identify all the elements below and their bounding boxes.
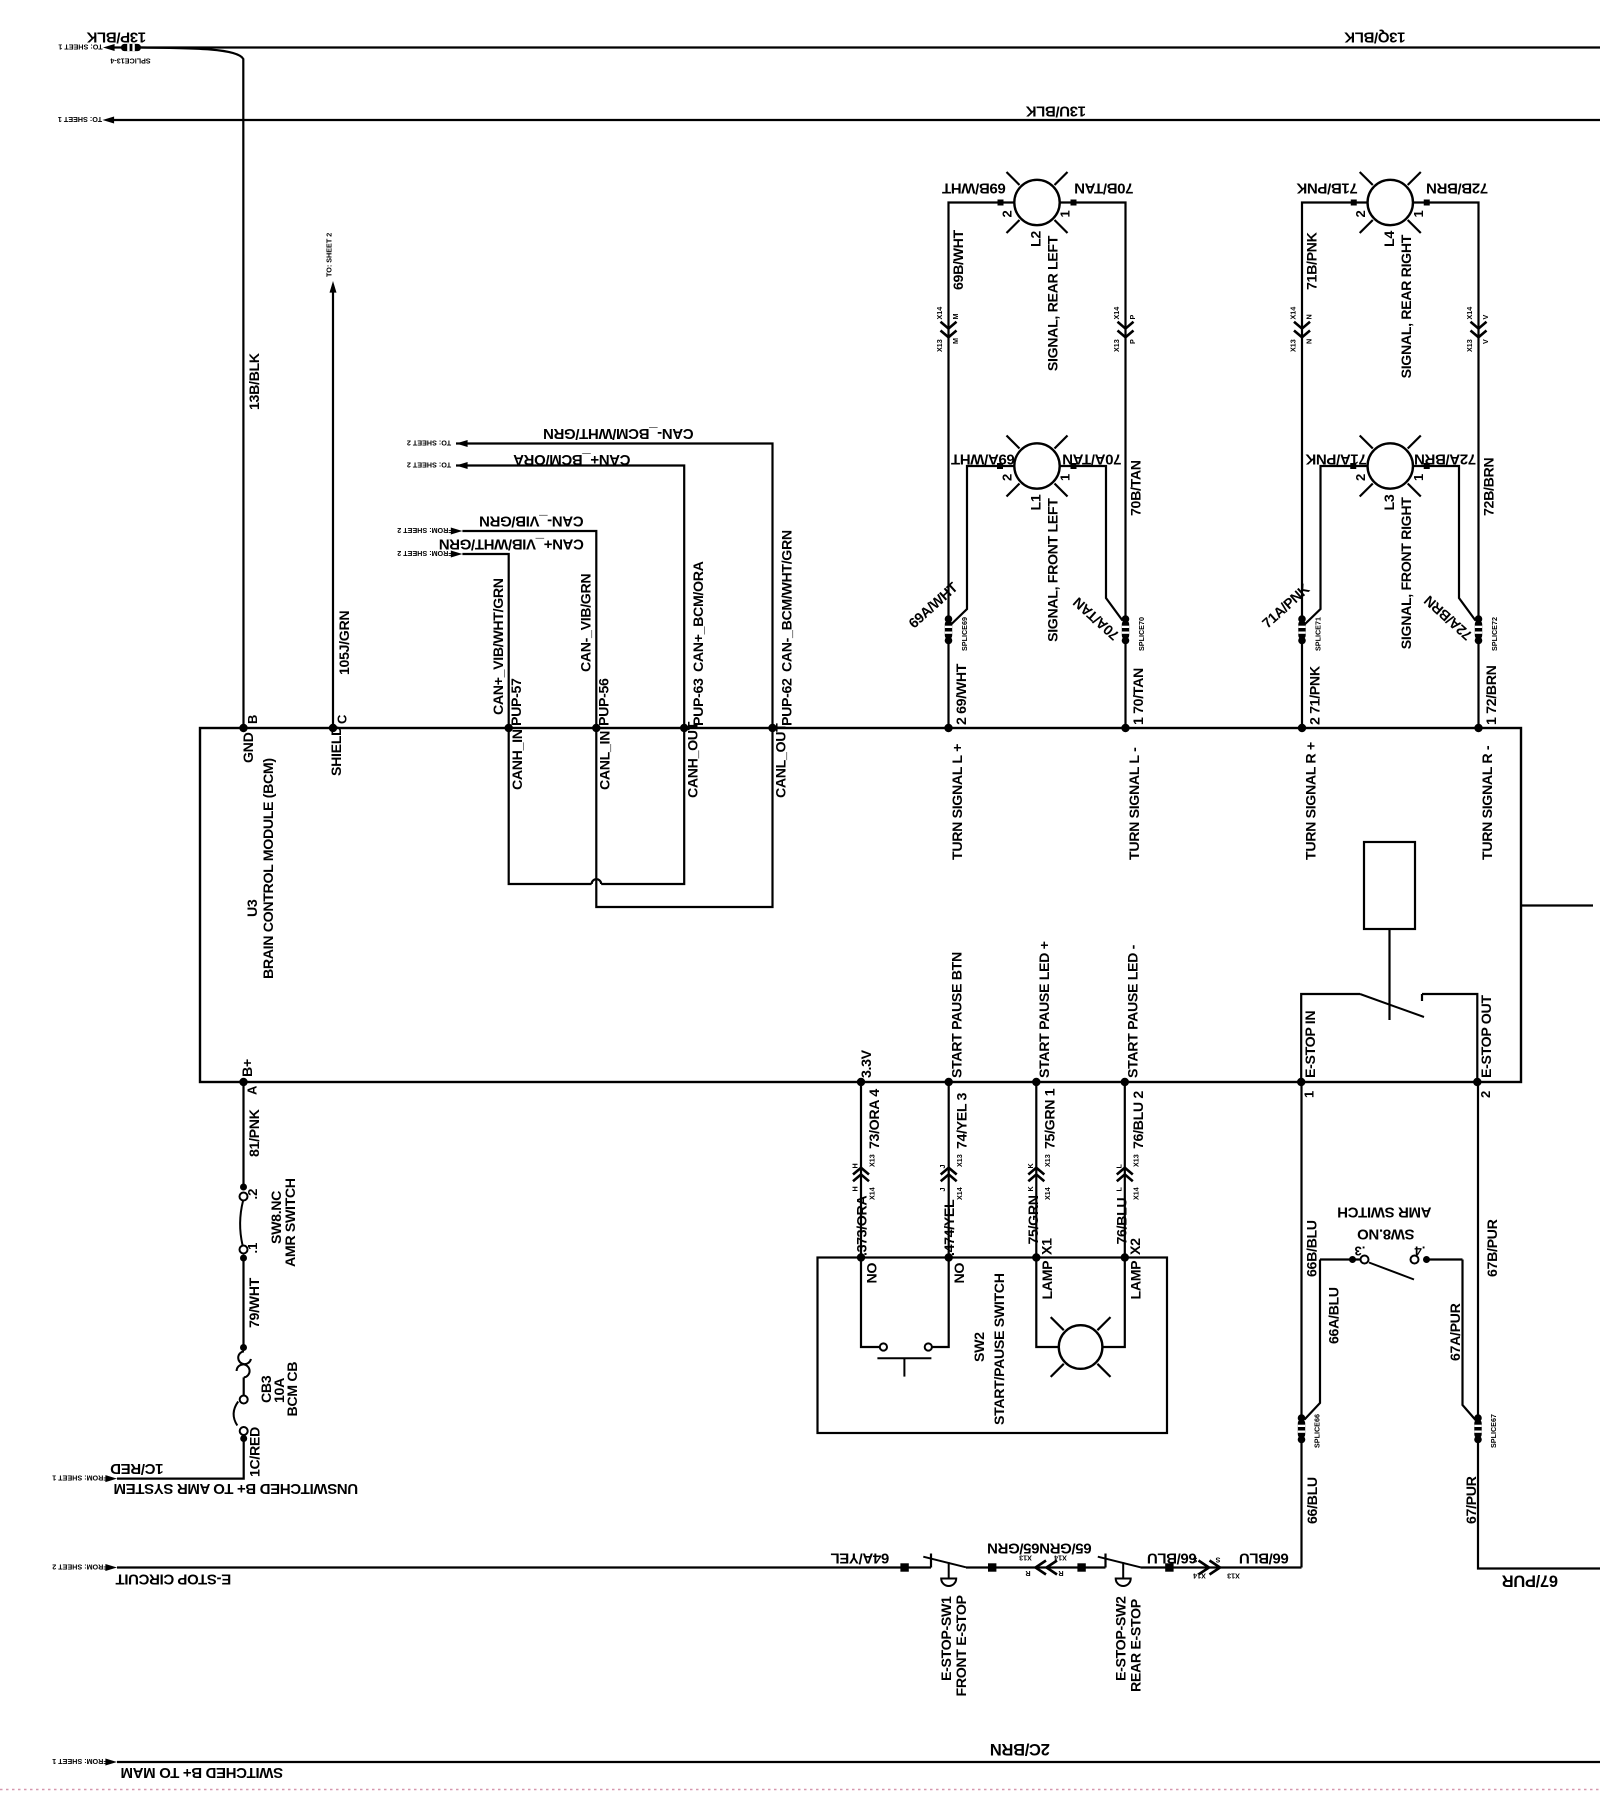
wire 67B/PUR bbox=[1477, 1082, 1479, 1420]
wire 69A/WHT branch bbox=[951, 466, 1014, 625]
svg-text:J: J bbox=[938, 1165, 947, 1169]
pin 1 TURN SIGNAL R - bbox=[1474, 724, 1482, 732]
wire 70A/TAN branch bbox=[1060, 466, 1123, 621]
svg-text:X1: X1 bbox=[1040, 1238, 1056, 1255]
svg-text:CAN+_BCM/ORA: CAN+_BCM/ORA bbox=[691, 561, 707, 672]
svg-text:NO: NO bbox=[865, 1263, 881, 1284]
lamp L3 SIGNAL, FRONT RIGHT bbox=[1368, 443, 1413, 488]
svg-text:K: K bbox=[1026, 1163, 1035, 1169]
pin .4 NO bbox=[945, 1253, 953, 1261]
splice SPLICE71 bbox=[1298, 615, 1306, 623]
svg-text:1C/RED: 1C/RED bbox=[248, 1427, 264, 1477]
svg-text:PUP-56: PUP-56 bbox=[597, 678, 613, 726]
svg-text:81/PNK: 81/PNK bbox=[247, 1108, 263, 1157]
pin C SHIELD bbox=[329, 724, 337, 732]
splice SPLICE69 bbox=[945, 615, 953, 623]
lamp L2 SIGNAL, REAR LEFT bbox=[1014, 180, 1059, 225]
svg-text:69A/WHT: 69A/WHT bbox=[951, 451, 1015, 468]
svg-text:E-STOP-SW1: E-STOP-SW1 bbox=[939, 1596, 955, 1681]
wire CAN-_BCM/WHT/GRN from CANL_OUT to sheet 2 bbox=[456, 444, 773, 729]
push-button stem bbox=[903, 1358, 905, 1376]
svg-text:L3: L3 bbox=[1382, 494, 1398, 510]
svg-text:E-STOP CIRCUIT: E-STOP CIRCUIT bbox=[116, 1571, 232, 1588]
svg-text:X13: X13 bbox=[1112, 339, 1121, 352]
pin PUP-56 CANL_IN bbox=[592, 724, 600, 732]
svg-text:CAN-_VIB/GRN: CAN-_VIB/GRN bbox=[579, 574, 595, 672]
svg-text:SIGNAL, REAR RIGHT: SIGNAL, REAR RIGHT bbox=[1399, 234, 1415, 378]
svg-text:TURN SIGNAL R +: TURN SIGNAL R + bbox=[1304, 742, 1320, 860]
svg-text:FRONT E-STOP: FRONT E-STOP bbox=[954, 1595, 970, 1696]
blade bbox=[1098, 1557, 1141, 1568]
svg-text:L: L bbox=[1114, 1164, 1123, 1169]
contact tick right bbox=[1421, 994, 1423, 1001]
svg-text:70B/TAN: 70B/TAN bbox=[1129, 460, 1145, 516]
svg-text:START PAUSE BTN: START PAUSE BTN bbox=[950, 952, 966, 1078]
svg-text:X13: X13 bbox=[1043, 1154, 1052, 1167]
wire 76/BLU bbox=[1124, 1082, 1126, 1258]
svg-text:1: 1 bbox=[1058, 474, 1073, 481]
svg-text:73/ORA 4: 73/ORA 4 bbox=[867, 1089, 883, 1149]
connector X13/X14 pin J bbox=[941, 1168, 957, 1175]
svg-text:.474/YEL: .474/YEL bbox=[942, 1199, 958, 1256]
svg-text:67/PUR: 67/PUR bbox=[1464, 1476, 1480, 1524]
svg-text:E-STOP IN: E-STOP IN bbox=[1303, 1011, 1319, 1078]
svg-text:72B/BRN: 72B/BRN bbox=[1482, 458, 1498, 516]
actuator stem bbox=[948, 1562, 950, 1578]
svg-text:START PAUSE LED +: START PAUSE LED + bbox=[1037, 941, 1053, 1078]
svg-text:FROM: SHEET 1: FROM: SHEET 1 bbox=[52, 1757, 108, 1766]
wire 65/GRN bbox=[966, 1566, 1106, 1568]
svg-text:L1: L1 bbox=[1029, 494, 1045, 510]
svg-text:TURN SIGNAL R -: TURN SIGNAL R - bbox=[1480, 745, 1496, 860]
svg-text:CANH_IN: CANH_IN bbox=[510, 729, 526, 790]
blade bbox=[923, 1557, 966, 1568]
svg-text:FROM: SHEET 2: FROM: SHEET 2 bbox=[52, 1563, 108, 1572]
wire 66/BLU riser bbox=[1300, 1437, 1302, 1568]
switch SW8.NC AMR SWITCH bbox=[240, 1184, 247, 1191]
relay contact blade bbox=[1360, 994, 1424, 1017]
svg-text:SPLICE71: SPLICE71 bbox=[1314, 617, 1323, 651]
svg-text:SPLICE13-4: SPLICE13-4 bbox=[110, 57, 150, 66]
svg-text:CAN+_BCM/ORA: CAN+_BCM/ORA bbox=[513, 451, 631, 468]
svg-text:R: R bbox=[1025, 1569, 1031, 1578]
wire 13B/BLK branch curving down from splice bbox=[141, 48, 244, 729]
svg-text:R: R bbox=[1058, 1569, 1064, 1578]
pin X2 LAMP bbox=[1121, 1253, 1129, 1261]
svg-text:SPLICE67: SPLICE67 bbox=[1489, 1414, 1498, 1448]
FROM: SHEET 2 arrow bbox=[105, 1564, 117, 1571]
svg-text:H: H bbox=[851, 1186, 860, 1191]
push-button bar bbox=[877, 1357, 931, 1359]
wire 74/YEL bbox=[948, 1082, 950, 1258]
pin 2 E-STOP OUT bbox=[1473, 1078, 1481, 1086]
svg-text:UNSWITCHED B+ TO AMR SYSTEM: UNSWITCHED B+ TO AMR SYSTEM bbox=[114, 1480, 358, 1497]
node junction 66 bbox=[1165, 1563, 1173, 1571]
wire hop over CANL bbox=[592, 879, 602, 884]
svg-text:76/BLU: 76/BLU bbox=[1114, 1198, 1130, 1245]
pin PUP-62 CANL_OUT bbox=[768, 724, 776, 732]
node junction 64A bbox=[900, 1563, 908, 1571]
svg-text:X14: X14 bbox=[1193, 1572, 1206, 1581]
svg-text:PUP-63: PUP-63 bbox=[691, 678, 707, 726]
svg-text:CANL_IN: CANL_IN bbox=[598, 731, 614, 790]
TO: SHEET 2 up arrow bbox=[330, 281, 337, 293]
wire relay actuator bbox=[1388, 929, 1390, 1020]
svg-text:B: B bbox=[245, 715, 260, 724]
svg-text:76/BLU 2: 76/BLU 2 bbox=[1131, 1091, 1147, 1149]
circuit-breaker CB3 10A BCM CB bbox=[240, 1344, 247, 1351]
svg-text:AMR SWITCH: AMR SWITCH bbox=[1338, 1204, 1432, 1221]
wire 67A/PUR branch bbox=[1463, 1260, 1477, 1421]
svg-text:V: V bbox=[1481, 339, 1490, 344]
svg-text:71B/PNK: 71B/PNK bbox=[1305, 231, 1321, 290]
svg-text:1C/RED: 1C/RED bbox=[110, 1460, 163, 1477]
svg-text:2 71/PNK: 2 71/PNK bbox=[1308, 665, 1324, 725]
svg-text:X13: X13 bbox=[1227, 1572, 1240, 1581]
svg-text:BCM CB: BCM CB bbox=[285, 1362, 301, 1417]
svg-text:TURN SIGNAL L +: TURN SIGNAL L + bbox=[950, 744, 966, 860]
svg-text:SHIELD: SHIELD bbox=[329, 726, 345, 776]
svg-text:X14: X14 bbox=[1043, 1187, 1052, 1200]
svg-text:74/YEL 3: 74/YEL 3 bbox=[955, 1092, 971, 1149]
splice SPLICE66 bbox=[1298, 1414, 1306, 1422]
relay coil (E-STOP relay) bbox=[1364, 842, 1415, 929]
svg-text:1: 1 bbox=[1411, 474, 1426, 481]
svg-text:1 72/BRN: 1 72/BRN bbox=[1484, 665, 1500, 725]
pin 2 TURN SIGNAL R + bbox=[1298, 724, 1306, 732]
svg-text:START/PAUSE SWITCH: START/PAUSE SWITCH bbox=[992, 1273, 1008, 1425]
wire 70/TAN bbox=[1124, 638, 1126, 728]
svg-text:64A/YEL: 64A/YEL bbox=[831, 1550, 890, 1567]
node junction 65 bbox=[988, 1563, 996, 1571]
svg-text:P: P bbox=[1128, 315, 1137, 320]
svg-text:CAN+_VIB/WHT/GRN: CAN+_VIB/WHT/GRN bbox=[491, 578, 507, 715]
svg-text:72B/BRN: 72B/BRN bbox=[1426, 180, 1488, 197]
FROM: SHEET 1 arrow bbox=[105, 1475, 117, 1482]
svg-text:X13: X13 bbox=[868, 1154, 877, 1167]
connector X13/X14 pin R bbox=[1036, 1561, 1047, 1575]
svg-text:.2: .2 bbox=[245, 1189, 260, 1200]
svg-text:13P/BLK: 13P/BLK bbox=[86, 29, 146, 46]
svg-text:66/BLU: 66/BLU bbox=[1239, 1550, 1289, 1567]
svg-text:65/GRN65/GRN: 65/GRN65/GRN bbox=[987, 1540, 1091, 1557]
svg-text:X14: X14 bbox=[955, 1187, 964, 1200]
wire CAN+_BCM/ORA from CANH_OUT to sheet 2 bbox=[456, 466, 684, 729]
connector X13/X14 pin H bbox=[853, 1168, 869, 1175]
pin 1 START PAUSE LED + bbox=[1032, 1078, 1040, 1086]
svg-text:FROM: SHEET 2: FROM: SHEET 2 bbox=[397, 526, 453, 535]
wire 70B/TAN vertical bbox=[1060, 203, 1126, 621]
svg-text:.4: .4 bbox=[1414, 1244, 1426, 1259]
wire 81/PNK bbox=[242, 1082, 244, 1187]
pin 4 3.3V bbox=[857, 1078, 865, 1086]
svg-text:66/BLU: 66/BLU bbox=[1305, 1477, 1321, 1524]
svg-text:J: J bbox=[938, 1188, 947, 1192]
svg-text:SIGNAL, FRONT RIGHT: SIGNAL, FRONT RIGHT bbox=[1399, 497, 1415, 649]
svg-text:A: A bbox=[245, 1085, 260, 1095]
svg-text:X14: X14 bbox=[1112, 307, 1121, 320]
pin X1 LAMP bbox=[1032, 1253, 1040, 1261]
wire 13Q/BLK top horizontal to sheet 1 bbox=[115, 46, 1600, 48]
svg-text:X14: X14 bbox=[1054, 1554, 1067, 1563]
svg-text:X13: X13 bbox=[1465, 339, 1474, 352]
svg-text:1: 1 bbox=[1058, 210, 1073, 217]
svg-text:.373/ORA: .373/ORA bbox=[855, 1196, 871, 1256]
svg-text:K: K bbox=[1026, 1186, 1035, 1192]
wire CANL internal bbox=[596, 728, 772, 907]
svg-text:69B/WHT: 69B/WHT bbox=[951, 229, 967, 290]
svg-text:SW8.NO: SW8.NO bbox=[1357, 1226, 1415, 1243]
svg-text:SIGNAL, REAR LEFT: SIGNAL, REAR LEFT bbox=[1046, 235, 1062, 371]
svg-text:REAR E-STOP: REAR E-STOP bbox=[1129, 1599, 1145, 1692]
svg-text:B+: B+ bbox=[240, 1059, 256, 1077]
svg-text:PUP-57: PUP-57 bbox=[509, 678, 525, 726]
svg-text:M: M bbox=[951, 314, 960, 320]
SW8.NO blade bbox=[1369, 1263, 1414, 1280]
svg-text:66B/BLU: 66B/BLU bbox=[1305, 1220, 1321, 1277]
svg-text:N: N bbox=[1305, 314, 1314, 319]
TO: SHEET 1 arrow (13U/BLK) bbox=[103, 117, 115, 124]
FROM: SHEET 2 arrow bbox=[451, 528, 463, 535]
svg-text:TO: SHEET 2: TO: SHEET 2 bbox=[407, 439, 451, 448]
push-button contacts SW2 bbox=[861, 1258, 880, 1348]
pin A B+ bbox=[239, 1078, 247, 1086]
svg-text:S: S bbox=[1215, 1556, 1220, 1565]
svg-text:2: 2 bbox=[1000, 210, 1015, 217]
pin PUP-63 CANH_OUT bbox=[680, 724, 688, 732]
svg-text:.3: .3 bbox=[1355, 1244, 1366, 1259]
connector X14/X13 pin P bbox=[1118, 322, 1134, 329]
svg-text:2: 2 bbox=[1353, 210, 1368, 217]
svg-text:X14: X14 bbox=[1465, 307, 1474, 320]
wire 13U/BLK horizontal to sheet 1 bbox=[114, 119, 1600, 121]
node junction 65b bbox=[1077, 1563, 1085, 1571]
pin 3 START PAUSE BTN bbox=[945, 1078, 953, 1086]
svg-text:X13: X13 bbox=[935, 339, 944, 352]
wire 66/BLU horizontal bbox=[1141, 1566, 1302, 1568]
svg-text:X13: X13 bbox=[1131, 1154, 1140, 1167]
FROM: SHEET 2 arrow bbox=[451, 551, 463, 558]
E-STOP-SW2 mushroom head bbox=[1116, 1579, 1131, 1587]
svg-text:SWITCHED B+ TO MAM: SWITCHED B+ TO MAM bbox=[121, 1764, 283, 1781]
svg-text:13B/BLK: 13B/BLK bbox=[247, 352, 263, 410]
page boundary dotted line bbox=[0, 1789, 1600, 1791]
wire 71A/PNK branch bbox=[1305, 466, 1368, 625]
svg-text:13Q/BLK: 13Q/BLK bbox=[1344, 29, 1405, 46]
splice SPLICE67 bbox=[1474, 1414, 1482, 1422]
svg-text:SPLICE69: SPLICE69 bbox=[960, 617, 969, 651]
svg-text:66A/BLU: 66A/BLU bbox=[1327, 1287, 1343, 1344]
svg-text:BRAIN CONTROL MODULE (BCM): BRAIN CONTROL MODULE (BCM) bbox=[261, 758, 277, 979]
node L1 pin 1 bbox=[1071, 463, 1077, 469]
wire 67/PUR riser and bottom run bbox=[1478, 1437, 1600, 1569]
wire 72/BRN bbox=[1477, 638, 1479, 728]
svg-text:66/BLU: 66/BLU bbox=[1147, 1550, 1197, 1567]
svg-text:2C/BRN: 2C/BRN bbox=[990, 1740, 1050, 1758]
wire 73/ORA bbox=[860, 1082, 862, 1258]
svg-text:71A/PNK: 71A/PNK bbox=[1305, 451, 1366, 468]
svg-text:69B/WHT: 69B/WHT bbox=[942, 180, 1006, 197]
wire CB3 blade bbox=[234, 1402, 239, 1426]
TO: SHEET 2 arrow bbox=[456, 440, 468, 447]
svg-text:70A/TAN: 70A/TAN bbox=[1063, 451, 1122, 468]
svg-text:2 69/WHT: 2 69/WHT bbox=[954, 663, 970, 725]
wire 105J/GRN shield to sheet 2 bbox=[332, 292, 334, 728]
svg-text:CANL_OUT: CANL_OUT bbox=[774, 723, 790, 798]
pin B GND bbox=[239, 724, 247, 732]
pin 2 START PAUSE LED - bbox=[1121, 1078, 1129, 1086]
contact tick bbox=[1104, 1554, 1106, 1568]
FROM: SHEET 1 arrow bbox=[105, 1759, 117, 1766]
node L4 pin 1 bbox=[1424, 200, 1430, 206]
pin PUP-57 CANH_IN bbox=[505, 724, 513, 732]
svg-text:C: C bbox=[335, 714, 350, 724]
svg-text:START PAUSE LED -: START PAUSE LED - bbox=[1126, 944, 1142, 1078]
wire stub right of BCM bbox=[1521, 904, 1593, 906]
svg-text:TO: SHEET 1: TO: SHEET 1 bbox=[58, 115, 102, 124]
svg-text:CAN-_BCM/WHT/GRN: CAN-_BCM/WHT/GRN bbox=[543, 425, 693, 442]
svg-text:SPLICE66: SPLICE66 bbox=[1313, 1414, 1322, 1448]
wire SW8.NC blade bbox=[240, 1201, 243, 1245]
lamp L1 SIGNAL, FRONT LEFT bbox=[1014, 443, 1059, 488]
svg-text:TO: SHEET 2: TO: SHEET 2 bbox=[407, 461, 451, 470]
node L3 pin 2 bbox=[1350, 463, 1356, 469]
connector X14/X13 pin M bbox=[941, 322, 957, 329]
wire 66A/BLU branch bbox=[1305, 1260, 1321, 1420]
svg-text:N: N bbox=[1305, 339, 1314, 344]
wire 71/PNK bbox=[1301, 638, 1303, 728]
svg-text:3.3V: 3.3V bbox=[859, 1049, 875, 1078]
wire CAN-_VIB/GRN from sheet 2 to CANL_IN bbox=[462, 531, 596, 728]
svg-text:H: H bbox=[851, 1163, 860, 1168]
svg-text:NO: NO bbox=[952, 1263, 968, 1284]
wire E-STOP IN to contact bbox=[1301, 994, 1360, 1082]
svg-text:X14: X14 bbox=[1289, 307, 1298, 320]
svg-text:L2: L2 bbox=[1029, 231, 1045, 247]
svg-text:67A/PUR: 67A/PUR bbox=[1448, 1303, 1464, 1361]
actuator stem bbox=[1122, 1562, 1124, 1578]
svg-text:2: 2 bbox=[1353, 474, 1368, 481]
wire CAN+_VIB/WHT/GRN from sheet 2 to CANH_IN bbox=[462, 554, 508, 728]
pin 1 TURN SIGNAL L - bbox=[1121, 724, 1129, 732]
wire 69B/WHT vertical bbox=[949, 203, 1015, 621]
svg-text:FROM: SHEET 1: FROM: SHEET 1 bbox=[52, 1474, 108, 1483]
svg-text:X2: X2 bbox=[1128, 1238, 1144, 1255]
svg-text:72A/BRN: 72A/BRN bbox=[1414, 451, 1476, 468]
switch SW2 START/PAUSE SWITCH box bbox=[818, 1258, 1168, 1434]
svg-text:CAN-_VIB/GRN: CAN-_VIB/GRN bbox=[479, 513, 583, 530]
E-STOP-SW1 mushroom head bbox=[941, 1579, 956, 1587]
svg-text:E-STOP-SW2: E-STOP-SW2 bbox=[1114, 1596, 1130, 1681]
svg-text:S: S bbox=[1192, 1556, 1197, 1565]
svg-text:SW2: SW2 bbox=[972, 1332, 988, 1362]
wire contact to E-STOP OUT bbox=[1422, 994, 1477, 1082]
node L1 pin 2 bbox=[997, 463, 1003, 469]
connector X13/X14 pin K bbox=[1028, 1168, 1044, 1175]
connector X14/X13 pin N bbox=[1294, 322, 1310, 329]
svg-text:LAMP: LAMP bbox=[1040, 1261, 1056, 1300]
TO: SHEET 2 arrow bbox=[456, 462, 468, 469]
connector X13/X14 pin L bbox=[1117, 1168, 1133, 1175]
svg-text:79/WHT: 79/WHT bbox=[247, 1277, 263, 1328]
svg-text:1: 1 bbox=[1411, 210, 1426, 217]
svg-text:X13: X13 bbox=[1289, 339, 1298, 352]
svg-text:TO: SHEET 2: TO: SHEET 2 bbox=[325, 233, 334, 277]
node L2 pin 1 bbox=[1071, 200, 1077, 206]
svg-text:L: L bbox=[1114, 1187, 1123, 1192]
svg-text:CAN-_BCM/WHT/GRN: CAN-_BCM/WHT/GRN bbox=[780, 530, 796, 672]
svg-text:70B/TAN: 70B/TAN bbox=[1075, 180, 1134, 197]
splice SPLICE13-4 bbox=[121, 44, 141, 51]
svg-text:GND: GND bbox=[241, 732, 257, 763]
svg-text:V: V bbox=[1481, 315, 1490, 320]
splice SPLICE72 bbox=[1475, 615, 1483, 623]
svg-text:AMR SWITCH: AMR SWITCH bbox=[283, 1178, 299, 1267]
node L3 pin 1 bbox=[1424, 463, 1430, 469]
splice SPLICE70 bbox=[1122, 615, 1130, 623]
wire 72A/BRN branch bbox=[1413, 466, 1476, 621]
op-amp U3 BRAIN CONTROL MODULE (BCM) box bbox=[200, 728, 1521, 1082]
wire 66B/BLU bbox=[1300, 1082, 1302, 1420]
pin 2 TURN SIGNAL L + bbox=[944, 724, 952, 732]
svg-text:CANH_OUT: CANH_OUT bbox=[686, 721, 702, 798]
svg-text:67/PUR: 67/PUR bbox=[1502, 1572, 1558, 1590]
svg-text:X13: X13 bbox=[1019, 1554, 1032, 1563]
svg-text:67B/PUR: 67B/PUR bbox=[1485, 1219, 1501, 1277]
svg-text:SPLICE70: SPLICE70 bbox=[1137, 617, 1146, 651]
wire 75/GRN bbox=[1035, 1082, 1037, 1258]
wire 72B/BRN vertical bbox=[1413, 203, 1479, 621]
svg-text:75/GRN 1: 75/GRN 1 bbox=[1042, 1088, 1058, 1149]
svg-text:U3: U3 bbox=[245, 899, 261, 917]
wire 1C/RED bbox=[117, 1439, 244, 1479]
lamp inside SW2 bbox=[1036, 1258, 1059, 1348]
connector X14/X13 pin S bbox=[1199, 1561, 1210, 1575]
connector X14/X13 pin V bbox=[1471, 322, 1487, 329]
svg-text:LAMP: LAMP bbox=[1129, 1261, 1145, 1300]
svg-text:SPLICE72: SPLICE72 bbox=[1490, 617, 1499, 651]
wire SWITCHED B+ TO MAM 2C/BRN bbox=[117, 1761, 1600, 1763]
pin .3 NO bbox=[857, 1253, 865, 1261]
wire 79/WHT bbox=[242, 1258, 244, 1348]
svg-text:M: M bbox=[951, 338, 960, 344]
wire 69/WHT bbox=[947, 638, 949, 728]
wire CANH internal bbox=[509, 728, 592, 884]
wire E-STOP CIRCUIT 64A/YEL bbox=[117, 1566, 931, 1568]
svg-text:X14: X14 bbox=[1131, 1187, 1140, 1200]
svg-text:75/GRN: 75/GRN bbox=[1026, 1195, 1042, 1244]
svg-text:2: 2 bbox=[1478, 1091, 1493, 1098]
svg-text:P: P bbox=[1128, 339, 1137, 344]
svg-text:TURN SIGNAL L -: TURN SIGNAL L - bbox=[1127, 747, 1143, 860]
contact tick bbox=[930, 1554, 932, 1568]
svg-text:X14: X14 bbox=[935, 307, 944, 320]
node L2 pin 2 bbox=[998, 200, 1004, 206]
TO: SHEET 1 arrow (13P/BLK) bbox=[103, 44, 115, 51]
lamp L4 SIGNAL, REAR RIGHT bbox=[1368, 180, 1413, 225]
pin 1 E-STOP IN bbox=[1297, 1078, 1305, 1086]
svg-text:105J/GRN: 105J/GRN bbox=[337, 611, 353, 675]
svg-text:2: 2 bbox=[1000, 474, 1015, 481]
svg-text:E-STOP OUT: E-STOP OUT bbox=[1479, 995, 1495, 1078]
svg-text:CAN+_VIB/WHT/GRN: CAN+_VIB/WHT/GRN bbox=[439, 536, 584, 553]
svg-text:PUP-62: PUP-62 bbox=[780, 678, 796, 726]
svg-text:.1: .1 bbox=[245, 1243, 260, 1254]
svg-text:X13: X13 bbox=[955, 1154, 964, 1167]
node L4 pin 2 bbox=[1351, 200, 1357, 206]
wire 71B/PNK vertical bbox=[1302, 203, 1368, 621]
svg-text:1 70/TAN: 1 70/TAN bbox=[1131, 668, 1147, 725]
